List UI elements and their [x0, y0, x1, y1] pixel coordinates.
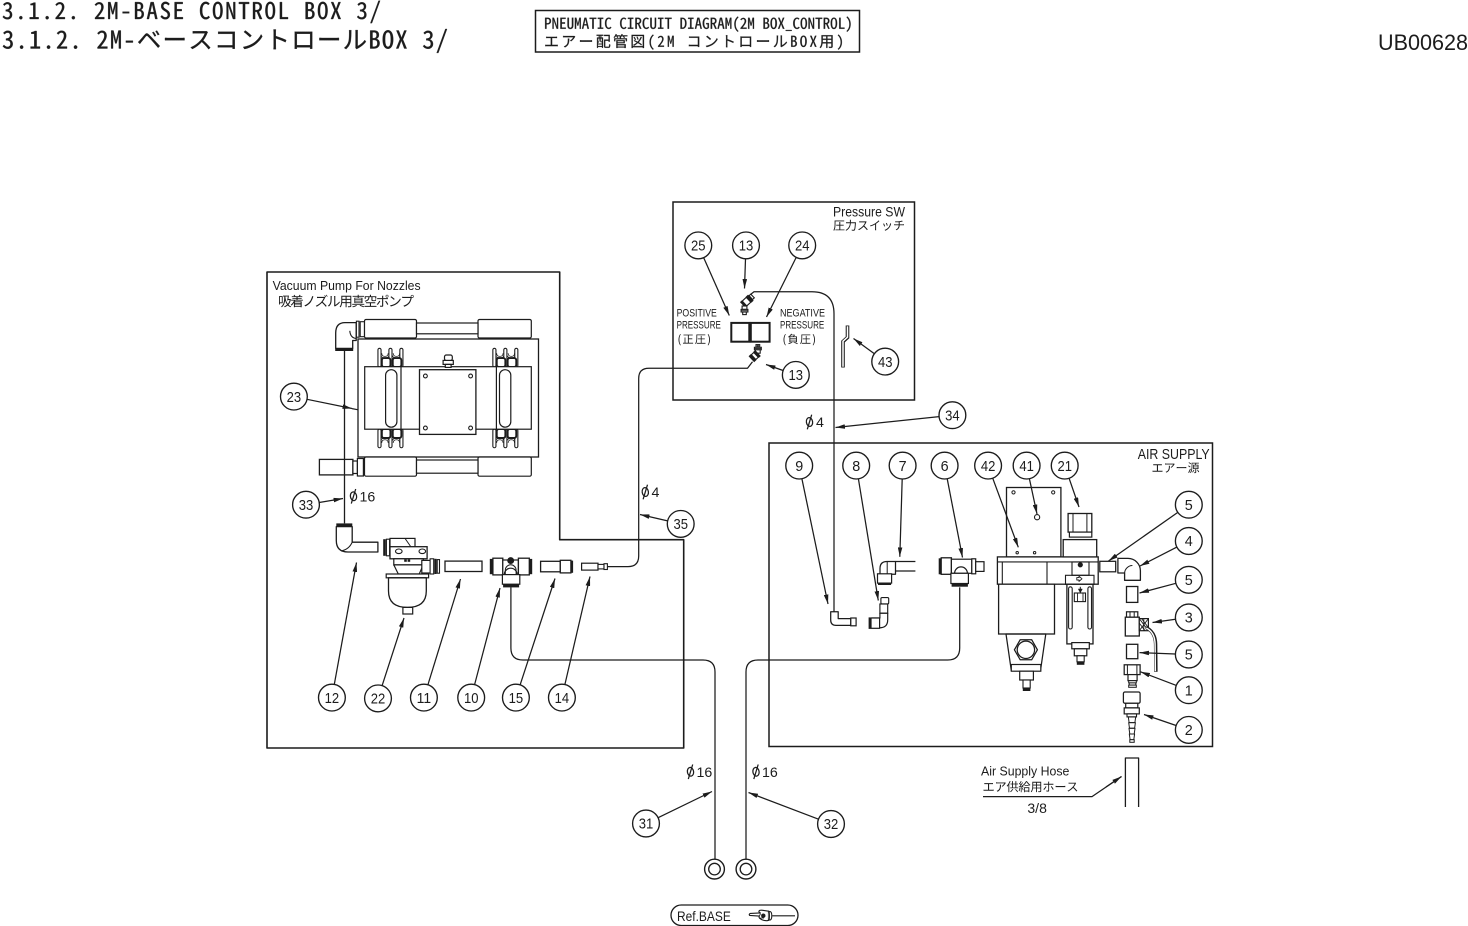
elbow fitting (pump inlet, top-left): [335, 321, 364, 351]
svg-text:5: 5: [1185, 648, 1193, 664]
balloon 10: [458, 588, 500, 711]
label φ4 (at balloon 35): [642, 485, 660, 501]
muffler (pump exhaust): [319, 459, 363, 477]
svg-text:9: 9: [795, 459, 803, 475]
balloon 31: [633, 792, 712, 837]
svg-text:Vacuum Pump For Nozzles: Vacuum Pump For Nozzles: [273, 278, 421, 293]
label: POSITIVE PRESSURE (正圧): [677, 307, 721, 345]
square fitting 5b: [1127, 587, 1138, 603]
svg-text:13: 13: [739, 239, 754, 255]
label: AIR SUPPLY: [1138, 447, 1210, 473]
label φ16 (at balloon 33): [350, 489, 376, 505]
balloon 1: [1141, 672, 1203, 704]
balloon 5 bottom: [1140, 641, 1203, 668]
balloon 11: [411, 579, 461, 711]
fitting 14: [582, 563, 608, 570]
elbow 9: [831, 612, 856, 626]
balloon 35: [640, 511, 694, 538]
drawing number UB00628: [1378, 30, 1468, 55]
filter 22: [383, 538, 439, 614]
balloon 13 upper: [733, 232, 760, 289]
tube 15: [541, 560, 574, 573]
svg-text:10: 10: [464, 691, 479, 707]
svg-text:42: 42: [981, 459, 996, 475]
balloon 21: [1051, 452, 1079, 507]
svg-text:12: 12: [325, 691, 340, 707]
svg-text:1: 1: [1185, 683, 1193, 699]
svg-text:21: 21: [1057, 459, 1072, 475]
balloon 13 lower: [766, 362, 809, 389]
balloon 42: [975, 452, 1019, 547]
svg-text:PRESSURE: PRESSURE: [780, 319, 824, 331]
FRL crossbar: [997, 557, 1098, 584]
balloon 7: [889, 452, 916, 557]
wire: φ4 line from fitting 14 up to pressure switch fitting: [607, 362, 752, 567]
balloon 23: [352, 409, 358, 410]
pressure switch: positive square: [731, 323, 749, 342]
balloon 6: [931, 452, 962, 557]
balloon 41: [1013, 452, 1040, 514]
wire: φ16 tube from pump inlet elbow down: [344, 351, 346, 523]
svg-text:Air Supply Hose: Air Supply Hose: [981, 764, 1069, 779]
svg-text:4: 4: [816, 415, 824, 431]
svg-text:16: 16: [697, 765, 713, 781]
svg-text:AIR SUPPLY: AIR SUPPLY: [1138, 447, 1210, 463]
elbow 7 with tube: [878, 562, 916, 586]
balloon 22: [365, 618, 404, 712]
vacuum pump 23: bottom rail: [365, 457, 532, 476]
tube 11: [445, 561, 482, 571]
tee fitting 10: [490, 558, 532, 588]
balloon 32: [749, 793, 845, 838]
vacuum pump 23: top nut: [443, 355, 453, 367]
pressure switch: negative square: [751, 323, 770, 342]
balloon 34: [836, 402, 966, 429]
vacuum pump 23: center plate: [420, 370, 476, 435]
vacuum pump 23: top rail: [365, 320, 532, 339]
balloon 4: [1140, 528, 1202, 566]
svg-text:PRESSURE: PRESSURE: [677, 319, 721, 331]
svg-text:8: 8: [852, 459, 860, 475]
balloon 5 top: [1109, 491, 1203, 561]
port fitting 5a: [1100, 561, 1116, 572]
svg-text:14: 14: [555, 691, 570, 707]
svg-text:Pressure SW: Pressure SW: [833, 205, 905, 220]
svg-text:5: 5: [1185, 573, 1193, 589]
balloon 43: [854, 339, 899, 376]
svg-text:3/8: 3/8: [1027, 801, 1047, 816]
fitting 13 upper (angled): [740, 293, 755, 315]
bracket 43: [843, 326, 848, 368]
svg-text:34: 34: [945, 408, 960, 424]
grommet 32: [736, 859, 756, 879]
balloon 8: [843, 452, 879, 600]
svg-text:41: 41: [1019, 459, 1034, 475]
balloon 15: [503, 579, 555, 711]
svg-text:16: 16: [762, 765, 778, 781]
svg-text:25: 25: [691, 239, 706, 255]
enclosure: Pressure SW box: [673, 202, 915, 400]
fitting 13 lower (angled): [749, 345, 762, 363]
mounting plate 42: [1007, 488, 1061, 558]
label: Air Supply Hose 3/8: [981, 764, 1122, 817]
square fitting 5c: [1127, 644, 1138, 658]
air supply hose: [1125, 758, 1138, 807]
label φ16 (at balloon 32): [752, 765, 778, 781]
balloon 3: [1153, 604, 1203, 631]
balloon 14: [549, 577, 591, 711]
svg-text:POSITIVE: POSITIVE: [677, 307, 717, 319]
regulator 21: [1063, 514, 1097, 557]
ball valve 3: [1125, 612, 1156, 672]
svg-text:13: 13: [789, 368, 804, 384]
z-fitting 8: [869, 598, 889, 629]
svg-text:6: 6: [941, 459, 949, 475]
svg-text:4: 4: [1185, 534, 1193, 550]
svg-text:43: 43: [878, 355, 893, 371]
wire: line from valve 6 down to grommet 32: [746, 587, 960, 859]
svg-text:UB00628: UB00628: [1378, 30, 1468, 55]
enclosure: Vacuum Pump For Nozzles box: [267, 272, 684, 748]
label: Pressure SW: [833, 205, 905, 231]
svg-text:3: 3: [1185, 611, 1193, 627]
vacuum pump 23: cooling fins: [378, 348, 518, 447]
wire: negative pressure line from pressure switch down to elbow 9: [751, 292, 835, 612]
fitting 1: [1124, 665, 1140, 688]
vacuum pump 23: middle band: [365, 367, 532, 430]
label φ16 (at balloon 31): [687, 765, 713, 781]
svg-text:7: 7: [899, 459, 907, 475]
enclosure: AIR SUPPLY box: [769, 443, 1213, 747]
svg-text:31: 31: [639, 817, 654, 833]
wire: line from tee 10 down to grommet 31: [511, 587, 715, 859]
svg-text:5: 5: [1185, 498, 1193, 514]
Ref.BASE reference tag: [671, 905, 798, 926]
filter unit (left, under crossbar): [999, 562, 1055, 691]
svg-text:15: 15: [509, 691, 524, 707]
balloon 24: [767, 232, 816, 317]
svg-text:22: 22: [371, 692, 386, 708]
balloon 33: [293, 491, 343, 518]
vacuum pump 23: body: [358, 339, 539, 457]
svg-text:35: 35: [673, 517, 688, 533]
svg-text:NEGATIVE: NEGATIVE: [780, 307, 825, 319]
balloon 9: [786, 452, 828, 604]
balloon 2: [1144, 715, 1202, 744]
elbow fitting 12: [336, 523, 378, 552]
svg-text:16: 16: [360, 489, 376, 505]
label φ4 (at balloon 34): [806, 415, 824, 431]
svg-text:33: 33: [299, 498, 314, 514]
filter-regulator unit (right, under crossbar): [1066, 562, 1095, 665]
elbow 4: [1118, 558, 1141, 580]
fitting 2: [1123, 692, 1140, 742]
svg-text:11: 11: [417, 691, 432, 707]
balloon 25: [685, 232, 729, 316]
grommet 31: [705, 859, 725, 879]
title block: PNEUMATIC CIRCUIT DIAGRAM: [536, 11, 860, 53]
svg-text:24: 24: [795, 239, 810, 255]
svg-text:Ref.BASE: Ref.BASE: [677, 909, 731, 924]
balloon 12: [319, 563, 357, 711]
label: Vacuum Pump For Nozzles: [273, 278, 421, 307]
label: NEGATIVE PRESSURE (負圧): [780, 307, 825, 345]
svg-text:32: 32: [824, 817, 839, 833]
valve 6: [939, 558, 984, 587]
svg-text:4: 4: [652, 485, 660, 501]
page header title: [3, 1, 447, 53]
balloon 5 middle: [1140, 566, 1203, 593]
svg-text:23: 23: [287, 390, 302, 406]
svg-text:2: 2: [1185, 723, 1193, 739]
